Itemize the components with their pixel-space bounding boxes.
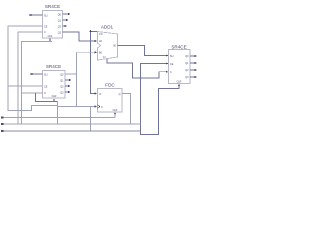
shift register U2 SR4CE (43, 64, 66, 98)
svg-text:ADD1: ADD1 (101, 25, 114, 30)
wire U3 Q1 output stub (190, 62, 197, 64)
wire U3 CLR loop to U3 CE pin via bottom detour (141, 62, 181, 134)
svg-text:CE: CE (44, 85, 48, 88)
svg-text:CO: CO (99, 33, 103, 36)
wire vertical from clock row down through rails (90, 107, 92, 132)
wire U3 Q2 output stub (190, 69, 197, 71)
wire adder carry-out to FDC D input (89, 30, 97, 95)
wire U1 SLI input stub (29, 14, 43, 16)
wire vertical link x57 (57, 102, 59, 125)
shift register U1 SR4CE (43, 4, 63, 38)
svg-text:SR4CE: SR4CE (46, 64, 61, 69)
svg-text:CE: CE (170, 63, 174, 66)
svg-text:Q: Q (119, 93, 121, 96)
wire U2 SLI input stub (30, 73, 43, 75)
wire rail 2 with terminal (1, 123, 140, 125)
svg-text:C: C (44, 31, 46, 34)
svg-text:FDC: FDC (105, 83, 115, 88)
svg-text:CI: CI (103, 56, 106, 59)
wire rail 3 with terminal (1, 130, 140, 132)
svg-text:CLR: CLR (48, 35, 53, 38)
wire U1 Q3 to adder input A (63, 32, 98, 42)
wire U1 Q2 output stub (63, 25, 68, 27)
svg-text:D: D (100, 93, 102, 96)
wire U2 Q1 output stub (65, 79, 72, 81)
svg-text:C: C (44, 92, 46, 95)
wire U3 Q3 output stub (190, 76, 197, 78)
wire net CLR2: U2 CLR fed from short vertical (36, 93, 58, 102)
wire U3 Q0 output stub (190, 55, 197, 57)
wire net C1: U1 C pin to left vertical down to rail (18, 32, 43, 124)
svg-text:C: C (101, 106, 103, 109)
flip-flop U5 FDC (98, 83, 123, 113)
wire U1 Q0 output stub (63, 13, 71, 15)
svg-text:C: C (170, 71, 172, 74)
svg-text:CLR: CLR (113, 109, 118, 112)
adder U4 ADD1 (98, 25, 118, 61)
shift register U3 SR4CE (169, 44, 191, 83)
wire FDC CLR down to rail 1 (114, 112, 116, 118)
wire U2 C pin from left vertical (22, 92, 43, 94)
wire FDC Q output to rail 2 riser (122, 94, 131, 125)
wire adder sum output to U3 SLI (118, 46, 169, 57)
wire U1 Q1 output stub (63, 19, 69, 21)
wire net CLR1: U1 CLR from left vertical (22, 38, 53, 117)
svg-text:SLI: SLI (170, 55, 174, 58)
wire U2 Q0 to adder input B riser (65, 51, 97, 106)
wire U2 Q3 output stub (65, 91, 71, 93)
svg-text:SR4CE: SR4CE (45, 4, 60, 9)
wire adder carry-in path to U3 C pin (107, 59, 168, 78)
wire rail 1 with terminal (1, 116, 115, 118)
svg-text:CLR: CLR (52, 95, 57, 98)
wire left vertical x21 down to rail (21, 93, 23, 124)
svg-text:CLR: CLR (177, 81, 182, 84)
wire net CE bus: U1 CE pin, left vertical, bottom jog to FDC clock row (8, 26, 58, 111)
svg-text:CE: CE (44, 25, 48, 28)
wire FDC clock input row (58, 105, 98, 107)
svg-text:SLI: SLI (44, 14, 48, 17)
svg-text:SR4CE: SR4CE (171, 44, 186, 49)
svg-text:SLI: SLI (44, 73, 48, 76)
wire U2 Q2 output stub (65, 85, 71, 87)
